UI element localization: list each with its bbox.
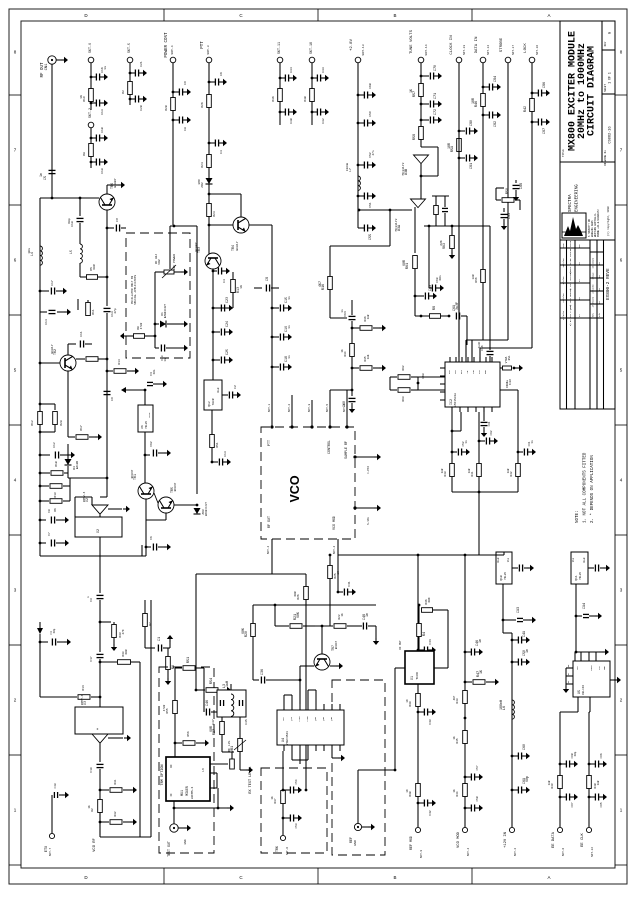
svg-text:TEST OUT: TEST OUT bbox=[167, 841, 171, 857]
svg-text:1K: 1K bbox=[271, 796, 274, 800]
svg-text:1K: 1K bbox=[88, 805, 91, 809]
svg-text:68p: 68p bbox=[53, 628, 56, 633]
svg-text:C96: C96 bbox=[600, 753, 603, 758]
svg-text:U3B: U3B bbox=[405, 169, 409, 175]
svg-text:Vin: Vin bbox=[572, 557, 575, 562]
svg-text:SPECIAL APPLICATION: SPECIAL APPLICATION bbox=[134, 275, 137, 305]
svg-text:R8: R8 bbox=[82, 152, 86, 156]
svg-text:EE CLK: EE CLK bbox=[581, 832, 585, 846]
svg-text:10R: 10R bbox=[468, 468, 471, 473]
svg-text:68p: 68p bbox=[525, 776, 529, 782]
svg-text:C8: C8 bbox=[183, 127, 187, 131]
svg-text:VCO: VCO bbox=[288, 475, 302, 502]
svg-text:C34: C34 bbox=[289, 67, 293, 73]
svg-text:C70: C70 bbox=[434, 65, 438, 71]
svg-text:SKT-16: SKT-16 bbox=[536, 45, 539, 55]
svg-text:1K: 1K bbox=[409, 89, 413, 93]
svg-text:68n: 68n bbox=[153, 369, 156, 374]
svg-text:C17: C17 bbox=[50, 280, 54, 286]
svg-text:L5: L5 bbox=[69, 250, 73, 254]
svg-text:2. * DEPENDS ON APPLICATION: 2. * DEPENDS ON APPLICATION bbox=[590, 455, 595, 523]
svg-text:C64: C64 bbox=[488, 421, 491, 426]
svg-text:VR2: VR2 bbox=[158, 259, 161, 265]
svg-text:REV: REV bbox=[592, 312, 595, 317]
svg-text:X1: X1 bbox=[410, 676, 414, 680]
svg-text:68R: 68R bbox=[209, 726, 213, 732]
svg-text:STROBE: STROBE bbox=[500, 37, 504, 52]
svg-text:SKT-7: SKT-7 bbox=[49, 847, 52, 856]
svg-text:SHEET: SHEET bbox=[604, 84, 607, 92]
svg-text:47K: 47K bbox=[122, 629, 125, 634]
svg-text:DATA IN: DATA IN bbox=[475, 36, 479, 53]
svg-text:R60: R60 bbox=[422, 373, 425, 378]
svg-text:1K: 1K bbox=[406, 789, 409, 793]
svg-text:R23: R23 bbox=[212, 211, 216, 217]
svg-text:RF OUT: RF OUT bbox=[267, 516, 271, 528]
svg-text:R4: R4 bbox=[423, 632, 427, 636]
svg-text:LRFMS-2: LRFMS-2 bbox=[191, 787, 194, 800]
svg-text:C54: C54 bbox=[295, 779, 298, 784]
svg-text:10R: 10R bbox=[472, 274, 475, 279]
svg-text:780R: 780R bbox=[212, 398, 215, 405]
svg-text:Vout: Vout bbox=[148, 412, 151, 418]
svg-text:C94: C94 bbox=[583, 603, 587, 609]
svg-text:C43: C43 bbox=[429, 719, 432, 724]
svg-text:1K: 1K bbox=[79, 95, 83, 99]
svg-text:REVISION: REVISION bbox=[569, 240, 572, 251]
svg-text:C44: C44 bbox=[429, 639, 432, 644]
svg-text:CONTROL: CONTROL bbox=[327, 440, 331, 454]
svg-text:L6: L6 bbox=[503, 706, 507, 710]
svg-text:1n: 1n bbox=[164, 358, 167, 362]
svg-text:C47: C47 bbox=[211, 719, 215, 725]
svg-text:C6: C6 bbox=[219, 72, 223, 76]
svg-text:SKT-17: SKT-17 bbox=[512, 45, 515, 55]
svg-text:C8: C8 bbox=[48, 509, 51, 513]
svg-text:93LC46: 93LC46 bbox=[582, 685, 585, 695]
svg-text:1n: 1n bbox=[531, 440, 534, 444]
svg-text:1. NOT ALL COMPONENTS FITTED: 1. NOT ALL COMPONENTS FITTED bbox=[584, 452, 588, 523]
svg-text:CLKB: CLKB bbox=[306, 716, 309, 722]
svg-text:C9: C9 bbox=[116, 218, 119, 222]
svg-text:SKT-4: SKT-4 bbox=[333, 545, 336, 554]
svg-text:C33: C33 bbox=[321, 67, 325, 73]
svg-text:C88: C88 bbox=[520, 183, 524, 189]
svg-text:E) EX ELR 4 QR04: E) EX ELR 4 QR04 bbox=[569, 304, 572, 326]
svg-text:1n: 1n bbox=[288, 296, 291, 300]
svg-text:BC847: BC847 bbox=[174, 482, 177, 491]
svg-text:CLKA: CLKA bbox=[298, 716, 301, 722]
svg-text:68R: 68R bbox=[402, 260, 406, 266]
svg-text:C1: C1 bbox=[158, 637, 162, 641]
svg-text:IC2: IC2 bbox=[449, 399, 453, 405]
svg-text:C53: C53 bbox=[295, 823, 298, 828]
svg-text:U3A: U3A bbox=[398, 224, 402, 231]
svg-text:C32: C32 bbox=[321, 118, 325, 124]
svg-text:C11: C11 bbox=[79, 331, 83, 337]
svg-text:SKT-13: SKT-13 bbox=[361, 44, 365, 55]
svg-text:68R: 68R bbox=[93, 264, 96, 269]
svg-text:R2: R2 bbox=[121, 90, 125, 94]
svg-text:+2.8V: +2.8V bbox=[350, 38, 354, 51]
svg-text:68n: 68n bbox=[439, 275, 442, 280]
svg-text:C80: C80 bbox=[470, 120, 474, 126]
svg-text:Q11: Q11 bbox=[574, 575, 578, 581]
svg-text:R11: R11 bbox=[91, 309, 95, 315]
svg-text:21/8/98: 21/8/98 bbox=[562, 293, 565, 303]
svg-text:SKT-6: SKT-6 bbox=[562, 847, 565, 856]
svg-text:R12: R12 bbox=[30, 420, 34, 426]
svg-text:1n: 1n bbox=[478, 639, 482, 643]
svg-text:1 OF 1: 1 OF 1 bbox=[608, 72, 612, 84]
svg-text:R8: R8 bbox=[433, 306, 437, 310]
svg-text:R46: R46 bbox=[475, 101, 479, 107]
svg-text:R26: R26 bbox=[297, 594, 300, 599]
svg-text:C13: C13 bbox=[223, 451, 227, 457]
svg-text:C95: C95 bbox=[600, 802, 603, 807]
svg-text:78L05: 78L05 bbox=[579, 572, 582, 580]
svg-text:REV: REV bbox=[604, 41, 607, 46]
svg-text:C6: C6 bbox=[150, 536, 153, 540]
svg-text:SKT-2: SKT-2 bbox=[288, 403, 291, 412]
svg-text:MC33172: MC33172 bbox=[394, 218, 398, 231]
svg-text:C21: C21 bbox=[139, 61, 143, 67]
svg-text:R40: R40 bbox=[444, 471, 447, 476]
svg-text:C62: C62 bbox=[150, 441, 153, 446]
svg-text:BC807: BC807 bbox=[194, 242, 198, 251]
svg-text:C57: C57 bbox=[476, 765, 479, 770]
svg-text:8SA: 8SA bbox=[508, 355, 511, 360]
svg-text:47n: 47n bbox=[372, 150, 375, 155]
svg-text:4C04: 4C04 bbox=[509, 378, 512, 385]
svg-text:10R: 10R bbox=[367, 314, 370, 319]
svg-text:OSC: OSC bbox=[448, 369, 451, 374]
svg-text:R42: R42 bbox=[510, 471, 513, 476]
svg-text:C17: C17 bbox=[90, 656, 93, 661]
svg-text:C) FULL OPTIMISE: C) FULL OPTIMISE bbox=[569, 269, 572, 291]
svg-text:10R: 10R bbox=[447, 143, 451, 149]
svg-text:3u3F: 3u3F bbox=[455, 302, 459, 310]
svg-text:BZX84C4V7: BZX84C4V7 bbox=[205, 502, 208, 516]
svg-text:X4: X4 bbox=[281, 738, 285, 742]
svg-text:TRM OPTION: TRM OPTION bbox=[161, 764, 165, 785]
svg-text:4K7: 4K7 bbox=[318, 281, 322, 287]
svg-text:TUNE VOLTS: TUNE VOLTS bbox=[410, 29, 414, 54]
svg-text:B: B bbox=[393, 13, 396, 18]
svg-text:C55: C55 bbox=[369, 234, 373, 240]
svg-text:1K: 1K bbox=[453, 736, 456, 740]
svg-text:C4: C4 bbox=[222, 279, 226, 283]
svg-text:R55: R55 bbox=[166, 708, 169, 713]
svg-text:GND: GND bbox=[484, 369, 487, 374]
svg-text:1/3/98: 1/3/98 bbox=[562, 276, 565, 285]
svg-text:C62: C62 bbox=[490, 430, 493, 435]
svg-text:1K: 1K bbox=[406, 699, 409, 703]
svg-text:C81: C81 bbox=[470, 163, 474, 169]
svg-text:TRK: TRK bbox=[275, 846, 279, 852]
svg-text:68K: 68K bbox=[296, 612, 300, 618]
svg-text:68R: 68R bbox=[125, 649, 128, 654]
svg-text:APPROVED: APPROVED bbox=[592, 296, 595, 307]
svg-text:C14: C14 bbox=[44, 319, 48, 325]
svg-text:SKT-12: SKT-12 bbox=[591, 847, 594, 857]
svg-text:R37: R37 bbox=[274, 798, 277, 803]
svg-text:ENGINEERING: ENGINEERING bbox=[576, 184, 580, 212]
svg-text:DRAWING No: DRAWING No bbox=[604, 150, 607, 166]
svg-text:R20: R20 bbox=[164, 105, 168, 111]
svg-text:10R: 10R bbox=[597, 780, 600, 785]
svg-text:3u3F: 3u3F bbox=[478, 341, 481, 348]
svg-text:1uH: 1uH bbox=[225, 681, 229, 687]
svg-text:VCO MOD: VCO MOD bbox=[332, 516, 336, 530]
svg-text:RF: RF bbox=[170, 764, 173, 768]
svg-text:EE DATA: EE DATA bbox=[552, 831, 556, 848]
svg-text:EX800-2 REVE: EX800-2 REVE bbox=[606, 268, 611, 300]
svg-text:BC847: BC847 bbox=[335, 640, 338, 649]
svg-text:R20: R20 bbox=[245, 631, 249, 637]
svg-text:X6: X6 bbox=[141, 425, 144, 429]
svg-text:C40: C40 bbox=[54, 783, 57, 788]
svg-text:TITLE: TITLE bbox=[562, 149, 565, 157]
svg-text:R62: R62 bbox=[402, 365, 405, 370]
svg-text:C58: C58 bbox=[476, 796, 479, 801]
svg-text:470R: 470R bbox=[140, 322, 143, 329]
svg-text:C24: C24 bbox=[225, 321, 229, 327]
svg-text:BC807: BC807 bbox=[113, 178, 117, 187]
svg-text:C87: C87 bbox=[543, 128, 547, 134]
svg-text:C25: C25 bbox=[225, 349, 229, 355]
svg-text:G: G bbox=[609, 32, 613, 34]
svg-text:SKT-14: SKT-14 bbox=[487, 45, 490, 55]
svg-text:470R: 470R bbox=[163, 704, 166, 711]
svg-text:R58: R58 bbox=[413, 134, 417, 140]
svg-text:R44: R44 bbox=[456, 791, 459, 796]
svg-text:68R: 68R bbox=[294, 591, 297, 596]
svg-text:100nH: 100nH bbox=[346, 162, 349, 171]
svg-text:R31: R31 bbox=[114, 779, 117, 784]
svg-text:10K: 10K bbox=[367, 354, 370, 359]
svg-text:BZX84C4V7: BZX84C4V7 bbox=[164, 303, 167, 318]
svg-text:LO: LO bbox=[202, 768, 205, 772]
svg-text:47p: 47p bbox=[113, 308, 117, 314]
svg-text:68K: 68K bbox=[428, 597, 431, 602]
svg-text:C23: C23 bbox=[225, 297, 229, 303]
svg-text:C19: C19 bbox=[90, 767, 93, 772]
svg-text:C59: C59 bbox=[368, 111, 372, 117]
svg-text:SKT-1: SKT-1 bbox=[268, 403, 271, 412]
svg-text:SKT-11: SKT-11 bbox=[277, 42, 281, 54]
svg-text:R51: R51 bbox=[216, 442, 219, 447]
svg-text:PHONE +61-8-94081672: PHONE +61-8-94081672 bbox=[597, 209, 600, 237]
svg-text:LOCK: LOCK bbox=[524, 43, 528, 53]
svg-text:C3: C3 bbox=[90, 598, 93, 602]
svg-text:R42: R42 bbox=[524, 106, 528, 112]
svg-text:RF LVL: RF LVL bbox=[227, 740, 231, 751]
svg-text:R32: R32 bbox=[114, 811, 117, 816]
svg-text:1K: 1K bbox=[341, 613, 344, 617]
svg-text:10R: 10R bbox=[548, 780, 551, 785]
svg-text:DESIGNED: DESIGNED bbox=[592, 257, 595, 268]
svg-text:R41: R41 bbox=[471, 471, 474, 476]
svg-text:C5: C5 bbox=[44, 176, 48, 180]
svg-text:C71: C71 bbox=[434, 93, 438, 99]
svg-text:RF ADJ: RF ADJ bbox=[155, 254, 158, 264]
svg-text:C60: C60 bbox=[343, 401, 347, 407]
svg-text:78L05: 78L05 bbox=[504, 572, 507, 580]
svg-text:R2: R2 bbox=[91, 808, 94, 812]
svg-text:R26: R26 bbox=[200, 102, 204, 108]
svg-text:1n: 1n bbox=[288, 325, 291, 329]
svg-text:R24: R24 bbox=[200, 162, 204, 168]
svg-text:(C) Copyright, 1998: (C) Copyright, 1998 bbox=[606, 206, 610, 236]
svg-text:R45: R45 bbox=[456, 738, 459, 743]
svg-text:R13: R13 bbox=[54, 492, 57, 497]
svg-text:VCO MOD: VCO MOD bbox=[457, 831, 461, 848]
svg-text:DATA: DATA bbox=[590, 665, 593, 671]
svg-text:SAMPLE RF: SAMPLE RF bbox=[344, 441, 348, 459]
svg-text:1n: 1n bbox=[525, 649, 529, 653]
svg-text:R14: R14 bbox=[82, 685, 85, 690]
svg-text:CHECKED: CHECKED bbox=[592, 284, 595, 294]
svg-text:CIRCUIT DIAGRAM: CIRCUIT DIAGRAM bbox=[587, 46, 598, 136]
svg-text:+12V IN: +12V IN bbox=[504, 832, 508, 848]
svg-text:R40: R40 bbox=[303, 96, 307, 102]
svg-text:CN1: CN1 bbox=[45, 63, 49, 71]
svg-text:C-P46: C-P46 bbox=[367, 466, 370, 474]
svg-text:C12: C12 bbox=[52, 442, 56, 448]
svg-text:SKT-14: SKT-14 bbox=[424, 44, 428, 55]
svg-text:NOTE:: NOTE: bbox=[576, 510, 580, 523]
svg-text:R49: R49 bbox=[551, 783, 554, 788]
svg-text:SKT-13: SKT-13 bbox=[463, 45, 466, 55]
svg-text:BC847: BC847 bbox=[131, 469, 134, 478]
svg-text:P/N: P/N bbox=[598, 312, 601, 317]
svg-text:C49: C49 bbox=[523, 631, 527, 637]
svg-text:GND: GND bbox=[353, 840, 357, 846]
svg-text:SKT-3: SKT-3 bbox=[206, 45, 210, 54]
svg-text:X5: X5 bbox=[577, 690, 581, 694]
svg-text:Vout: Vout bbox=[583, 557, 586, 563]
svg-text:R27: R27 bbox=[213, 729, 217, 735]
svg-text:A: A bbox=[547, 875, 550, 880]
svg-text:22K: 22K bbox=[440, 240, 443, 246]
svg-text:X2: X2 bbox=[96, 529, 100, 533]
svg-text:1K: 1K bbox=[479, 670, 483, 674]
svg-text:C72: C72 bbox=[434, 109, 438, 115]
svg-text:Vin: Vin bbox=[507, 557, 510, 562]
svg-text:10R: 10R bbox=[471, 98, 475, 104]
svg-text:R63: R63 bbox=[402, 396, 405, 401]
svg-text:DRAWN: DRAWN bbox=[592, 272, 595, 279]
svg-text:R38: R38 bbox=[409, 791, 412, 796]
svg-text:68p: 68p bbox=[574, 751, 577, 756]
svg-text:REF MOD: REF MOD bbox=[409, 836, 413, 850]
svg-text:SKT-3: SKT-3 bbox=[308, 403, 311, 412]
svg-text:GND: GND bbox=[184, 839, 187, 844]
svg-text:SKT-4: SKT-4 bbox=[467, 847, 470, 856]
svg-text:R39: R39 bbox=[409, 701, 412, 706]
svg-text:CLK: CLK bbox=[454, 369, 457, 374]
svg-text:SKT-10: SKT-10 bbox=[309, 42, 313, 54]
svg-text:SKT-2: SKT-2 bbox=[514, 847, 517, 856]
svg-text:R43: R43 bbox=[456, 698, 459, 703]
svg-text:C46: C46 bbox=[206, 700, 210, 706]
svg-text:DAT: DAT bbox=[460, 369, 463, 374]
svg-text:R14: R14 bbox=[118, 359, 121, 365]
svg-text:FIN: FIN bbox=[472, 369, 475, 374]
svg-text:APP: APP bbox=[578, 243, 581, 248]
svg-text:C93: C93 bbox=[517, 607, 521, 613]
svg-text:R36: R36 bbox=[271, 96, 275, 102]
svg-text:SKT-2: SKT-2 bbox=[88, 108, 92, 118]
svg-text:R10: R10 bbox=[54, 461, 58, 467]
svg-text:C18: C18 bbox=[100, 168, 104, 174]
svg-text:78L05: 78L05 bbox=[145, 421, 148, 429]
svg-text:SKT-6: SKT-6 bbox=[88, 43, 92, 53]
svg-text:LMX1501A: LMX1501A bbox=[454, 393, 457, 407]
svg-text:SKT-4: SKT-4 bbox=[170, 45, 174, 54]
svg-text:SKT-4: SKT-4 bbox=[267, 545, 270, 554]
svg-text:R6: R6 bbox=[54, 508, 57, 512]
svg-text:1n: 1n bbox=[465, 440, 468, 444]
svg-text:R56: R56 bbox=[475, 277, 478, 283]
svg-text:1n: 1n bbox=[365, 613, 369, 617]
svg-text:4K7: 4K7 bbox=[453, 695, 456, 700]
svg-text:SKT-5: SKT-5 bbox=[127, 43, 131, 53]
svg-text:RF OUT: RF OUT bbox=[399, 640, 402, 650]
svg-text:C60: C60 bbox=[368, 83, 372, 89]
svg-text:IF: IF bbox=[170, 793, 173, 797]
svg-text:S-14b: S-14b bbox=[366, 517, 370, 525]
svg-text:1K: 1K bbox=[453, 789, 456, 793]
svg-text:10R: 10R bbox=[507, 468, 510, 473]
svg-text:R50: R50 bbox=[506, 188, 510, 194]
svg-text:R59: R59 bbox=[451, 146, 455, 152]
svg-text:SKT-8: SKT-8 bbox=[286, 847, 289, 855]
svg-text:BC817: BC817 bbox=[50, 344, 54, 353]
svg-text:R56: R56 bbox=[187, 731, 190, 736]
svg-text:1K: 1K bbox=[239, 285, 243, 289]
svg-text:D) CHAS REMOVE: D) CHAS REMOVE bbox=[569, 288, 572, 307]
svg-text:Q10: Q10 bbox=[499, 575, 503, 581]
svg-text:VCO RF: VCO RF bbox=[93, 837, 97, 851]
svg-text:VCC: VCC bbox=[478, 369, 481, 374]
svg-text:MC33172: MC33172 bbox=[401, 162, 405, 175]
svg-text:15/2/98: 15/2/98 bbox=[562, 258, 565, 268]
svg-text:1K: 1K bbox=[337, 571, 340, 575]
svg-text:C8: C8 bbox=[266, 277, 270, 281]
svg-text:10n: 10n bbox=[27, 248, 31, 254]
svg-text:Vout: Vout bbox=[217, 387, 220, 393]
svg-text:68p: 68p bbox=[67, 218, 71, 224]
svg-text:VR1: VR1 bbox=[231, 746, 235, 752]
svg-text:R16: R16 bbox=[322, 284, 326, 290]
svg-text:CS882-1G: CS882-1G bbox=[609, 126, 613, 143]
svg-text:C41: C41 bbox=[348, 581, 351, 586]
svg-text:C7: C7 bbox=[48, 532, 51, 536]
svg-text:1n: 1n bbox=[103, 66, 107, 70]
svg-text:C36: C36 bbox=[261, 669, 265, 675]
svg-text:SKT-5: SKT-5 bbox=[326, 403, 329, 412]
svg-text:C60: C60 bbox=[523, 744, 527, 750]
svg-text:C42: C42 bbox=[429, 810, 432, 815]
svg-text:R34: R34 bbox=[344, 351, 347, 356]
svg-text:Vout: Vout bbox=[497, 557, 500, 563]
svg-text:C13: C13 bbox=[100, 109, 104, 115]
svg-text:DATE: DATE bbox=[562, 243, 565, 249]
svg-text:10R: 10R bbox=[441, 468, 444, 473]
svg-text:SKT-9: SKT-9 bbox=[420, 849, 423, 858]
